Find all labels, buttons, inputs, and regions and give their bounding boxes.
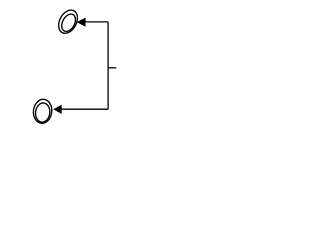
node T2 (bottom terminal, double ellipse) (32, 98, 53, 124)
arrowhead A2 (into bottom terminal) (53, 105, 62, 114)
node T1 (top terminal, tilted double ellipse) (55, 7, 81, 37)
wire (top horizontal) (85, 21, 108, 23)
wire (bottom horizontal) (61, 108, 108, 110)
stub (mid tick on vertical wire) (108, 67, 116, 69)
arrowhead A1 (into top terminal) (77, 18, 86, 27)
wire (right vertical) (107, 22, 109, 109)
